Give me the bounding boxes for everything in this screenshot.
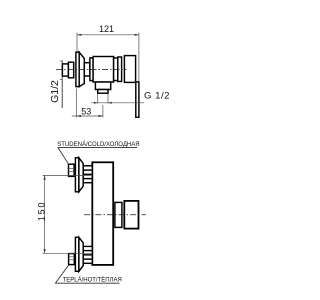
thread extent ticks [60, 60, 63, 62]
dimension 53 right extension line (outlet axis) [102, 105, 104, 118]
bottom escutcheon plate [75, 237, 79, 271]
mixer body (front view) [92, 162, 113, 265]
washer ring [90, 58, 93, 81]
svg-text:G1/2: G1/2 [49, 80, 61, 103]
svg-text:121: 121 [99, 24, 114, 34]
handle cap [124, 56, 135, 83]
hot leader line [55, 265, 69, 283]
outlet G 1/2 right arrow [108, 102, 112, 104]
svg-text:TEPLÁ/HOT/ТЁПЛАЯ: TEPLÁ/HOT/ТЁПЛАЯ [63, 277, 122, 284]
cold label underline [58, 147, 138, 149]
top union nut [69, 164, 75, 176]
bottom union nut [69, 254, 75, 265]
bottom threaded pipe [83, 246, 92, 263]
mixer body (side view) [93, 57, 114, 83]
escutcheon plate [76, 52, 79, 86]
cold leader line [58, 148, 69, 165]
svg-text:STUDENÁ/COLD/ХОЛОДНАЯ: STUDENÁ/COLD/ХОЛОДНАЯ [57, 141, 139, 148]
dimension 53 left extension line [76, 89, 78, 118]
body ring [114, 58, 118, 81]
cartridge collar [118, 57, 122, 82]
top inlet extension line [43, 174, 92, 176]
connecting pipe [84, 63, 90, 76]
svg-text:53: 53 [81, 106, 91, 116]
top pipe ladder lines [83, 169, 92, 171]
dimension 121 right arrow [135, 34, 139, 36]
bottom escutcheon cone [79, 237, 83, 271]
union nut (side view) [68, 62, 73, 78]
centreline of body (dash-dot) [56, 69, 127, 71]
dimension 53 left arrow [77, 115, 81, 117]
cartridge collar (front) [115, 202, 122, 227]
outlet G 1/2 extension lines [97, 94, 99, 104]
bottom nut facet lines [69, 256, 75, 258]
top threaded pipe [83, 166, 92, 183]
dimension 150 line [44, 175, 46, 253]
dimension 121 left arrow [77, 34, 81, 36]
centreline of cap (dash-dot) [84, 214, 146, 216]
lever handle (hanging down) [136, 82, 139, 117]
wall nipple [62, 64, 68, 76]
escutcheon cone [79, 52, 84, 86]
top nut facet lines [69, 168, 75, 170]
outlet G 1/2 dimension landing line [92, 102, 145, 104]
svg-text:G 1/2: G 1/2 [144, 90, 170, 101]
top escutcheon plate [75, 158, 79, 192]
hot label underline [55, 282, 119, 284]
bottom pipe ladder lines [83, 250, 92, 252]
dimension 150 top arrow [44, 175, 46, 179]
dimension 53 line [72, 115, 103, 117]
dimension 150 bottom arrow [44, 249, 46, 253]
dimension 53 right arrow [99, 115, 103, 117]
G1/2 label side line / nipple end line [61, 60, 63, 108]
dimension 121 left extension line [76, 33, 78, 53]
outlet G 1/2 left arrow [94, 102, 98, 104]
svg-text:150: 150 [36, 201, 46, 221]
dimension 121 right extension line [138, 33, 140, 83]
outlet upper flange [95, 82, 110, 90]
dimension 121 line [77, 34, 139, 36]
handle cap (front) [124, 201, 138, 229]
top escutcheon cone [79, 158, 83, 192]
bottom inlet extension line [43, 252, 92, 254]
outlet lower part [98, 90, 108, 94]
